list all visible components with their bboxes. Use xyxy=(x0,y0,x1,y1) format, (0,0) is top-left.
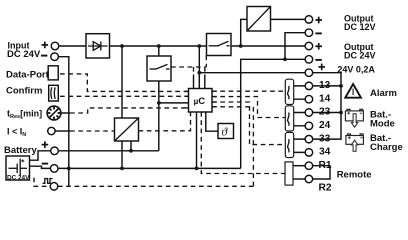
node terminal R2 xyxy=(305,175,313,183)
node terminal 23 xyxy=(305,109,313,117)
Data-Port box xyxy=(48,66,58,80)
t-dial rotary selector xyxy=(47,106,61,120)
battery charge icon xyxy=(346,134,364,151)
svg-text:Confirm: Confirm xyxy=(6,86,42,97)
relay K2 contact housing xyxy=(285,106,293,131)
wire uC top control stubs solid xyxy=(193,75,195,89)
DC/DC converter 12V box xyxy=(247,7,271,32)
svg-text:DC 24V: DC 24V xyxy=(7,174,30,181)
wire dashed uC to relay K3 xyxy=(212,102,285,145)
wire bus up to DC/DC 12V converter input xyxy=(241,19,247,46)
DC/DC charger box xyxy=(115,118,139,141)
svg-text:24V 0,2A: 24V 0,2A xyxy=(337,65,375,75)
svg-text:13: 13 xyxy=(319,80,331,91)
DC/DC charger diagonal xyxy=(115,118,139,141)
node junction uC supply x199.3 xyxy=(197,71,201,75)
node terminal 14 xyxy=(305,95,313,103)
node terminal R1 xyxy=(305,162,313,170)
node terminal 34 xyxy=(305,149,313,157)
wire dashed Data-Port to uC xyxy=(60,74,189,92)
svg-text:24: 24 xyxy=(319,120,331,131)
relay K1 blade xyxy=(288,86,289,99)
wire relay K2 contact to terminal 24 xyxy=(289,125,305,127)
node input plus terminal xyxy=(51,42,59,50)
wire input minus terminal to left vertical rail xyxy=(59,57,69,186)
wire remote jumper R1-R2 xyxy=(313,166,330,179)
wire charger output to battery plus rail xyxy=(130,141,132,151)
node junction on bus x158.8 xyxy=(157,44,161,48)
node junction battery sense tap xyxy=(157,101,161,105)
wire switch S1 bottom down to battery plus rail xyxy=(158,81,160,151)
output DC24V plus sign xyxy=(315,45,322,47)
wire t-dial stub xyxy=(61,112,70,114)
svg-text:Charge: Charge xyxy=(370,142,403,153)
wire charger output to 0V rail xyxy=(121,141,123,168)
Confirm button box xyxy=(49,85,59,101)
battery minus sign xyxy=(42,163,48,165)
node output DC12V plus xyxy=(305,16,313,24)
wire bus down to uC supply xyxy=(198,46,200,89)
svg-text:Battery: Battery xyxy=(4,145,37,156)
wire DC/DC 12V converter output to DC12V+ terminal xyxy=(271,18,306,20)
relay K3 contact housing xyxy=(285,132,293,157)
output DC12V plus sign xyxy=(315,19,322,21)
switch S2 box xyxy=(207,34,232,56)
wire terminal 23 to jumper rail xyxy=(313,112,341,114)
24V 0,2A plus sign xyxy=(318,66,325,68)
battery plus sign xyxy=(42,144,49,146)
wire battery plus jog from battery box xyxy=(30,151,51,160)
output DC12V minus sign xyxy=(315,32,321,34)
svg-text:Data-Port: Data-Port xyxy=(6,69,50,80)
wire 24V 0,2A plus to right jumper rail down to terminal 33 xyxy=(313,73,341,139)
node battery signal terminal xyxy=(50,183,58,191)
wire relay K1 contact to terminal 13 xyxy=(289,85,305,87)
node terminal 33 xyxy=(305,135,313,143)
wire 24V 0,2A output line xyxy=(199,72,305,74)
wire relay K1 contact to terminal 14 xyxy=(289,98,305,100)
node output DC24V minus xyxy=(305,56,313,64)
svg-text:Remote: Remote xyxy=(337,169,372,180)
node junction on bus x240.7 xyxy=(239,44,243,48)
svg-text:DC 24V: DC 24V xyxy=(344,50,376,60)
battery mode icon xyxy=(345,109,363,127)
wire dashed t-dial to uC with jog xyxy=(70,108,189,113)
switch S1 contact symbol xyxy=(150,68,157,70)
svg-text:33: 33 xyxy=(319,133,331,144)
wire dashed switch control bus S1-S2 xyxy=(171,66,206,68)
node output DC12V minus xyxy=(305,29,313,37)
battery pulse symbol xyxy=(43,179,53,184)
wire dashed Confirm to uC xyxy=(60,95,189,97)
svg-text:23: 23 xyxy=(319,107,331,118)
node junction on bus x122 xyxy=(120,44,124,48)
remote input housing xyxy=(285,162,293,185)
relay K3 blade xyxy=(288,139,289,152)
diode V1 box xyxy=(86,34,110,58)
wire battery plus rail xyxy=(59,150,159,152)
svg-text:Alarm: Alarm xyxy=(370,88,397,99)
svg-text:DC 24V: DC 24V xyxy=(7,49,41,60)
wire dashed control to uC top right xyxy=(204,67,206,75)
wire DC12V- terminal to minus rail xyxy=(285,33,305,60)
DC/DC converter 12V diagonal xyxy=(247,7,271,32)
battery symbol inside battery box xyxy=(9,167,18,169)
wire dashed switch S2 control drop xyxy=(205,56,207,68)
wire dashed I&lt;In to charger xyxy=(70,130,115,132)
wire top bus diode to switch S2 xyxy=(110,45,207,47)
wire uC ground down to 0V rail xyxy=(196,112,198,168)
wire bus down to charger input xyxy=(121,46,123,118)
node battery minus terminal xyxy=(50,165,58,173)
alarm warning triangle xyxy=(345,84,361,98)
op-amp uC box xyxy=(189,89,213,113)
wire uC right dashed-line start stubs xyxy=(212,90,217,92)
wire top bus from input to diode xyxy=(59,45,86,47)
wire uC left dashed-line end stubs xyxy=(184,90,188,92)
Confirm button symbol xyxy=(50,87,53,99)
node output DC24V plus xyxy=(305,42,313,50)
wire uC to temperature sensor xyxy=(206,112,218,131)
svg-text:34: 34 xyxy=(319,147,331,158)
wire dashed uC to relay K1 xyxy=(212,90,285,92)
node junction jumper rail at 13 xyxy=(339,84,343,88)
node terminal 24 xyxy=(305,122,313,130)
wire dashed uC to relay K2 xyxy=(212,97,285,118)
node input minus terminal xyxy=(51,53,59,61)
wire battery minus jog from battery box xyxy=(30,166,51,168)
svg-text:R1: R1 xyxy=(319,160,332,171)
wire dashed uC to remote input xyxy=(201,112,285,174)
wire top bus switch S2 to output DC24V+ terminal xyxy=(231,45,305,47)
node I&lt;In indicator terminal xyxy=(48,127,55,134)
node 24V 0,2A plus xyxy=(305,69,313,77)
wire relay K3 contact to terminal 33 xyxy=(289,138,305,140)
switch S1 box xyxy=(147,56,171,81)
node terminal 13 xyxy=(305,82,313,90)
wire DC24V- terminal left and down to 0V rail xyxy=(241,59,306,168)
wire relay K3 contact to terminal 34 xyxy=(289,151,305,153)
relay K1 contact housing xyxy=(285,79,293,104)
node junction on bus x199.3 xyxy=(197,44,201,48)
battery box xyxy=(6,156,30,180)
wire terminal 13 to jumper rail xyxy=(313,85,341,87)
svg-text:R2: R2 xyxy=(319,183,332,192)
wire remote input to terminal R2 xyxy=(293,178,305,180)
relay K2 blade xyxy=(288,113,289,126)
wire dashed uC to battery signal rail xyxy=(212,107,253,187)
output DC24V minus sign xyxy=(315,59,321,61)
wire dashed battery signal bottom rail xyxy=(58,185,254,187)
diode V1 symbol xyxy=(88,45,108,47)
node junction 0V rail x122 xyxy=(120,167,124,171)
wire dashed control to uC top left xyxy=(193,67,195,75)
temperature sensor box xyxy=(218,124,234,139)
wire dashed battery box to pulse terminal xyxy=(34,178,50,187)
input minus sign xyxy=(41,55,47,57)
switch S2 contact symbol xyxy=(209,45,220,47)
svg-text:Mode: Mode xyxy=(370,118,395,129)
node junction minus x285 xyxy=(283,57,287,61)
wire relay K2 contact to terminal 23 xyxy=(289,112,305,114)
node junction battery plus x131 xyxy=(129,149,133,153)
svg-text:DC 12V: DC 12V xyxy=(344,22,376,32)
wire I&lt;In stub xyxy=(55,130,70,132)
input plus sign xyxy=(42,44,49,46)
svg-text:14: 14 xyxy=(319,93,331,104)
node battery plus terminal xyxy=(51,147,59,155)
node junction jumper rail at 23 xyxy=(339,111,343,115)
svg-text:µC: µC xyxy=(194,96,206,107)
node junction 0V rail x68.8 xyxy=(67,167,71,171)
wire battery sense to uC left xyxy=(159,102,189,104)
wire 0V rail from battery minus to x240.7 xyxy=(58,167,240,169)
node junction 0V rail x196.5 xyxy=(195,167,199,171)
wire remote input to terminal R1 xyxy=(293,165,305,167)
wire dashed charger right to uC bottom xyxy=(139,112,191,131)
wire bus down to switch S1 top xyxy=(158,46,160,56)
